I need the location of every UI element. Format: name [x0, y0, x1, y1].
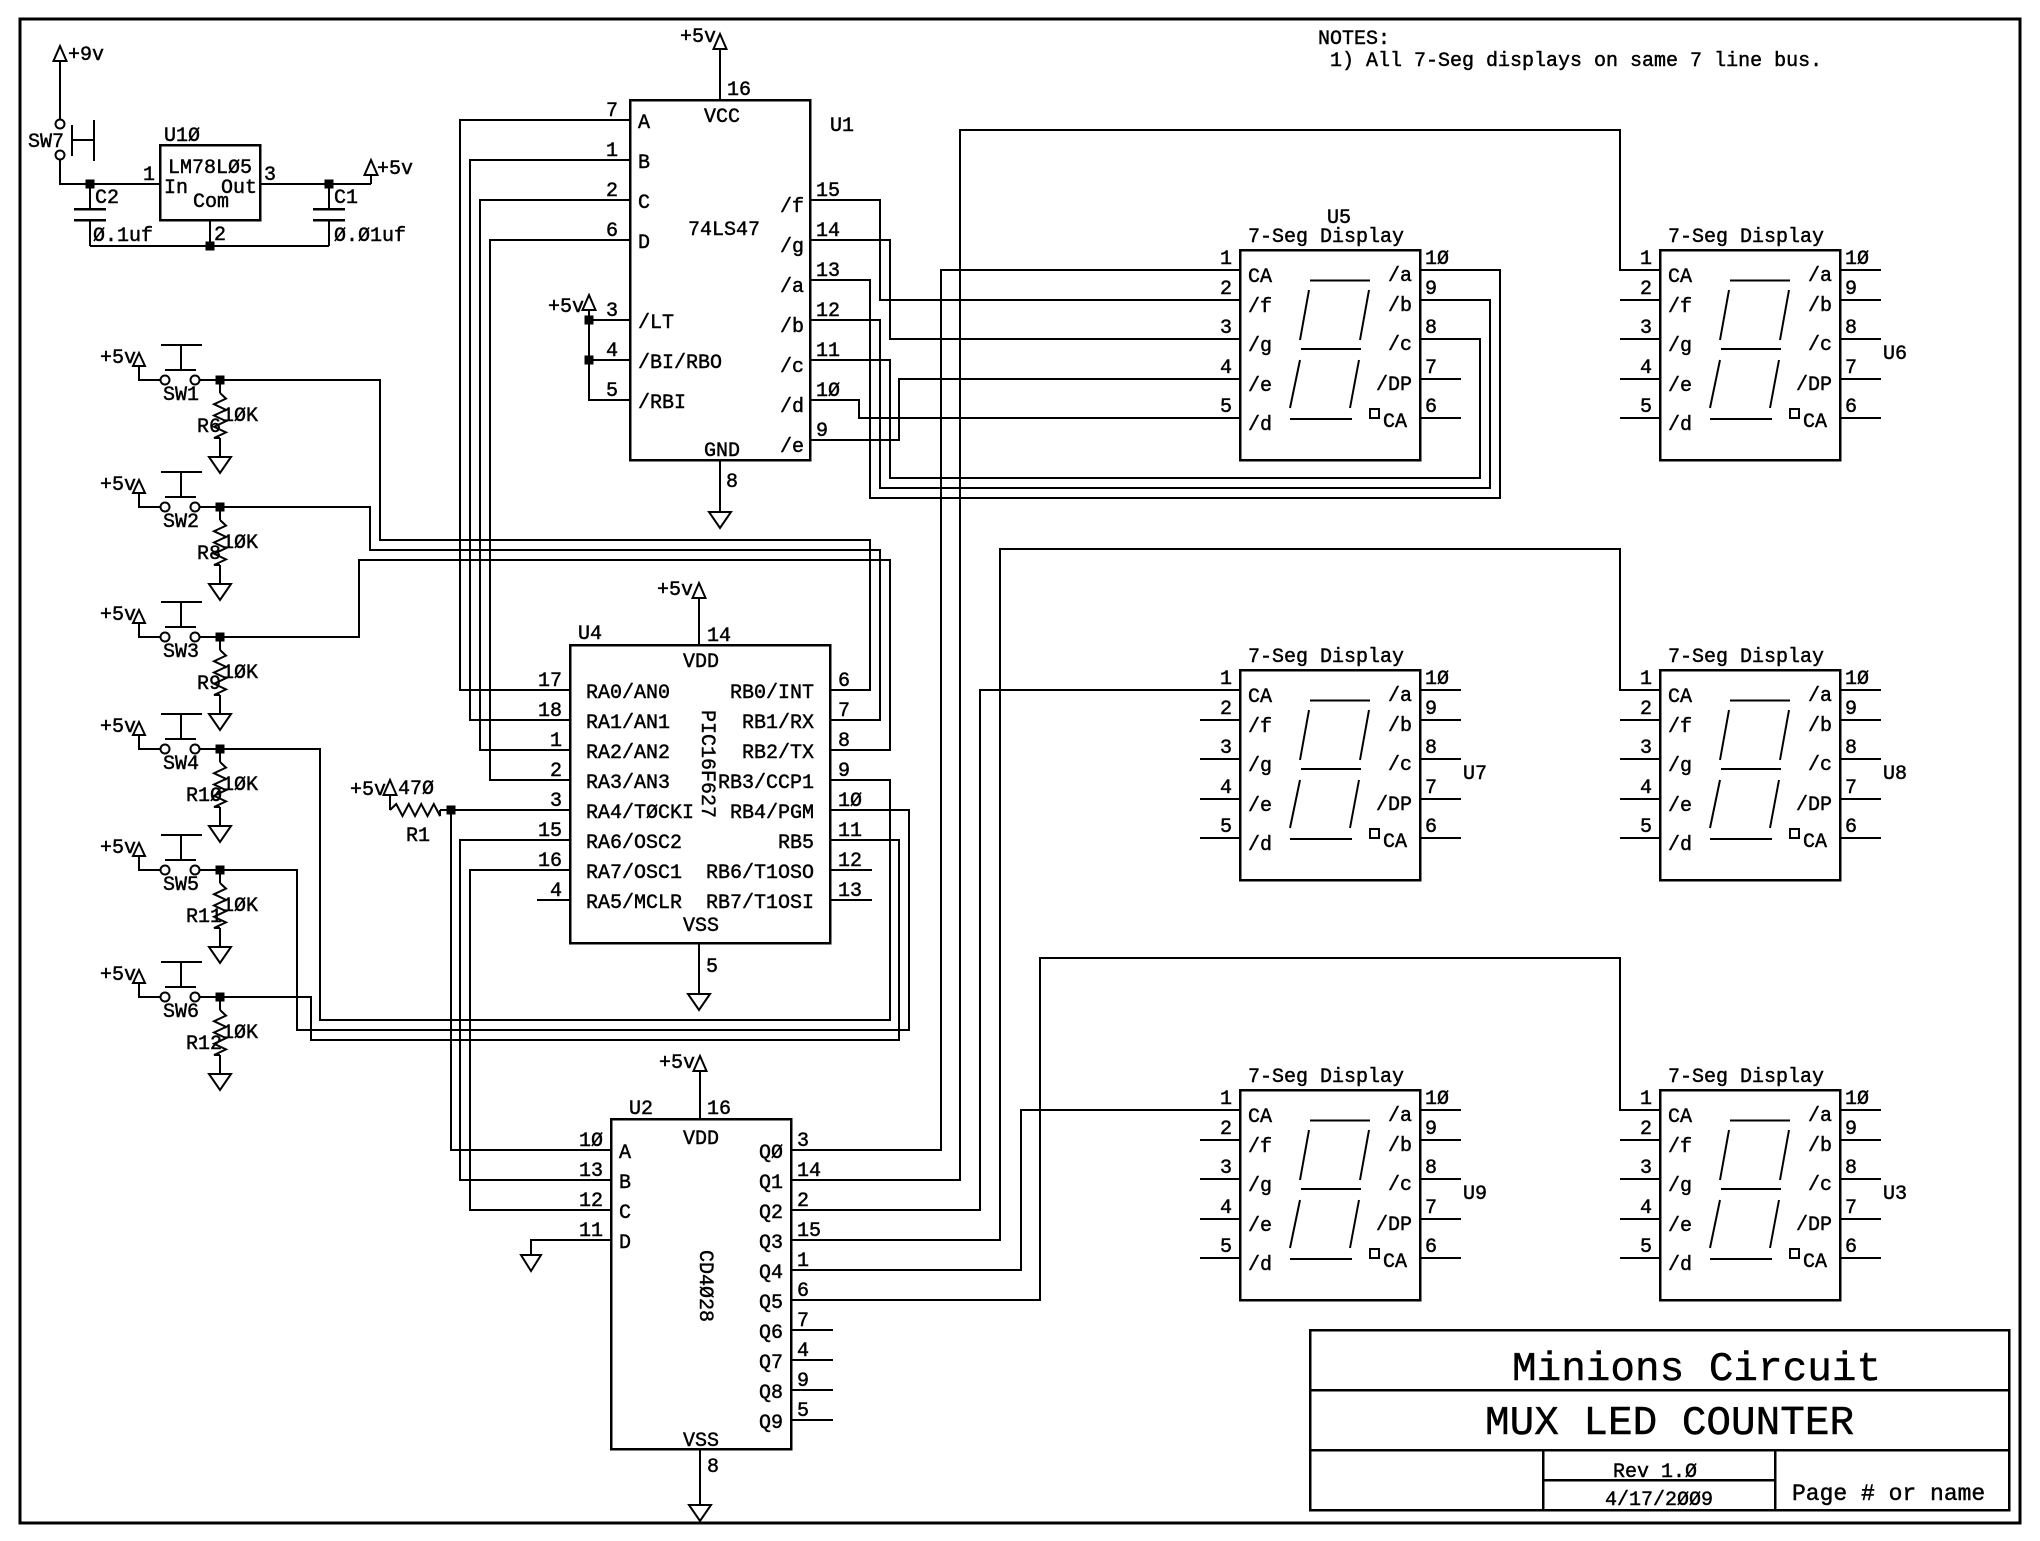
- svg-text:4: 4: [1220, 1197, 1232, 1220]
- svg-text:CA: CA: [1248, 1106, 1272, 1129]
- svg-text:/a: /a: [1808, 1105, 1832, 1128]
- svg-text:Com: Com: [193, 191, 229, 214]
- svg-text:2: 2: [214, 224, 226, 247]
- ground symbol U4: [688, 994, 710, 1010]
- svg-text:RB5: RB5: [778, 832, 814, 855]
- title block frame: [1310, 1330, 2009, 1510]
- svg-text:5: 5: [1220, 816, 1232, 839]
- svg-text:9: 9: [1845, 1118, 1857, 1141]
- svg-text:8: 8: [1425, 1157, 1437, 1180]
- ground symbol SW5: [209, 947, 231, 963]
- svg-text:Q4: Q4: [759, 1262, 783, 1285]
- svg-text:8: 8: [1845, 1157, 1857, 1180]
- svg-text:12: 12: [579, 1190, 603, 1213]
- svg-text:/e: /e: [1248, 1215, 1272, 1238]
- svg-text:CA: CA: [1803, 1251, 1827, 1274]
- ground symbol U2 D: [521, 1255, 541, 1271]
- svg-text:3: 3: [1220, 1157, 1232, 1180]
- display U7 7-Seg Display: [1240, 670, 1420, 880]
- node junction LT: [585, 316, 594, 325]
- svg-text:/d: /d: [780, 396, 804, 419]
- svg-text:R1: R1: [406, 825, 430, 848]
- svg-text:1Ø: 1Ø: [579, 1130, 603, 1153]
- resistor R8 10K: [219, 507, 221, 520]
- wire net /b U1.12 to U5.9: [810, 300, 1490, 488]
- svg-text:RA6/OSC2: RA6/OSC2: [586, 832, 682, 855]
- node ground bus junction: [206, 242, 215, 251]
- svg-text:RB7/T1OSI: RB7/T1OSI: [706, 892, 814, 915]
- svg-text:14: 14: [707, 625, 731, 648]
- wire net SW5 to RB4: [220, 810, 909, 1030]
- svg-text:7-Seg Display: 7-Seg Display: [1248, 646, 1404, 669]
- svg-text:/f: /f: [1668, 716, 1692, 739]
- svg-text:/BI/RBO: /BI/RBO: [638, 352, 722, 375]
- svg-text:3: 3: [1640, 317, 1652, 340]
- svg-text:Rev 1.Ø: Rev 1.Ø: [1613, 1461, 1697, 1484]
- node SW1 junction: [216, 376, 225, 385]
- wire +5v to /LT /BI/RBO /RBI: [589, 310, 630, 400]
- svg-text:/f: /f: [1668, 296, 1692, 319]
- svg-text:/g: /g: [1668, 1175, 1692, 1198]
- svg-text:R6: R6: [197, 416, 221, 439]
- svg-text:6: 6: [1425, 1236, 1437, 1259]
- svg-text:RA5/MCLR: RA5/MCLR: [586, 892, 682, 915]
- ground symbol SW1: [209, 457, 231, 473]
- svg-text:R8: R8: [197, 543, 221, 566]
- svg-text:3: 3: [1640, 1157, 1652, 1180]
- U2 Q9 stub wire: [791, 1419, 833, 1421]
- svg-text:Q8: Q8: [759, 1382, 783, 1405]
- svg-text:PIC16F627: PIC16F627: [695, 710, 718, 818]
- svg-text:+5v: +5v: [100, 604, 136, 627]
- svg-text:/b: /b: [1808, 295, 1832, 318]
- svg-text:5: 5: [706, 956, 718, 979]
- svg-text:4: 4: [1220, 357, 1232, 380]
- U3 digit segments: [1730, 1120, 1790, 1122]
- svg-text:/e: /e: [1248, 795, 1272, 818]
- ground symbol SW4: [209, 826, 231, 842]
- svg-text:U3: U3: [1883, 1183, 1907, 1206]
- wire net Q2 to U7 CA: [791, 690, 1240, 1210]
- svg-text:1Ø: 1Ø: [1425, 668, 1449, 691]
- wire net B U1.1 to RA1: [470, 160, 630, 720]
- svg-text:R1Ø: R1Ø: [186, 785, 222, 808]
- svg-text:+5v: +5v: [100, 474, 136, 497]
- wire net Q1 to U6 CA: [791, 130, 1660, 1180]
- svg-text:/e: /e: [1248, 375, 1272, 398]
- svg-text:13: 13: [579, 1160, 603, 1183]
- svg-text:R12: R12: [186, 1033, 222, 1056]
- svg-text:/e: /e: [1668, 1215, 1692, 1238]
- svg-text:/c: /c: [1388, 754, 1412, 777]
- svg-text:8: 8: [1845, 317, 1857, 340]
- U4 pin 13 stub wire: [830, 899, 872, 901]
- wire SW4 contact to node: [200, 748, 220, 750]
- svg-text:1Ø: 1Ø: [1425, 1088, 1449, 1111]
- wire net /d U1.10 to U5.5: [810, 400, 1240, 418]
- wire +5v to SW5: [139, 856, 160, 870]
- svg-text:8: 8: [1425, 737, 1437, 760]
- IC U2 CD4028: [611, 1119, 791, 1449]
- svg-text:7: 7: [1845, 777, 1857, 800]
- svg-text:1Ø: 1Ø: [1845, 248, 1869, 271]
- svg-text:CA: CA: [1803, 411, 1827, 434]
- svg-text:/a: /a: [1388, 685, 1412, 708]
- svg-text:7: 7: [1425, 777, 1437, 800]
- svg-text:+5v: +5v: [548, 296, 584, 319]
- svg-text:4: 4: [606, 340, 618, 363]
- switch SW7: [56, 120, 65, 129]
- svg-text:/f: /f: [1248, 1136, 1272, 1159]
- svg-text:2: 2: [1640, 278, 1652, 301]
- ground symbol SW2: [209, 584, 231, 600]
- svg-text:/b: /b: [1388, 1135, 1412, 1158]
- svg-text:74LS47: 74LS47: [688, 219, 760, 242]
- svg-text:RA3/AN3: RA3/AN3: [586, 772, 670, 795]
- svg-text:Ø.1uf: Ø.1uf: [93, 225, 153, 248]
- svg-text:Q2: Q2: [759, 1202, 783, 1225]
- svg-text:8: 8: [726, 471, 738, 494]
- switch SW6: [161, 993, 170, 1002]
- svg-text:/c: /c: [1808, 334, 1832, 357]
- svg-text:Ø.Ø1uf: Ø.Ø1uf: [334, 225, 406, 248]
- svg-text:2: 2: [1640, 1118, 1652, 1141]
- wire +5v to VDD pin 14: [698, 598, 700, 645]
- svg-text:R9: R9: [197, 673, 221, 696]
- svg-text:C: C: [619, 1202, 631, 1225]
- svg-text:/DP: /DP: [1796, 1214, 1832, 1237]
- svg-text:1: 1: [1640, 1088, 1652, 1111]
- svg-text:VSS: VSS: [683, 915, 719, 938]
- wire U10 Com pin2: [209, 220, 211, 246]
- svg-text:1: 1: [1220, 668, 1232, 691]
- svg-text:+5v: +5v: [377, 158, 413, 181]
- wire net /c U1.11 to U5.8: [810, 339, 1480, 478]
- wire SW3 contact to node: [200, 636, 220, 638]
- svg-text:/e: /e: [780, 436, 804, 459]
- node SW5 junction: [216, 866, 225, 875]
- U8 digit segments: [1730, 700, 1790, 702]
- svg-text:Q5: Q5: [759, 1292, 783, 1315]
- svg-text:9: 9: [1425, 1118, 1437, 1141]
- svg-text:1) All 7-Seg displays on same: 1) All 7-Seg displays on same 7 line bus…: [1330, 50, 1822, 73]
- svg-text:D: D: [619, 1232, 631, 1255]
- switch SW1: [161, 376, 170, 385]
- svg-text:SW5: SW5: [163, 874, 199, 897]
- svg-text:D: D: [638, 232, 650, 255]
- IC U1 74LS47: [630, 100, 810, 460]
- svg-text:NOTES:: NOTES:: [1318, 28, 1390, 51]
- svg-text:6: 6: [1845, 1236, 1857, 1259]
- svg-text:16: 16: [727, 79, 751, 102]
- wire net /g U1.14 to U5.3: [810, 240, 1240, 339]
- svg-text:Page # or name: Page # or name: [1792, 1481, 1985, 1507]
- wire net /f U1.15 to U5.2: [810, 200, 1240, 300]
- display U3 7-Seg Display: [1660, 1090, 1840, 1300]
- wire net Q4 to U9 CA: [791, 1110, 1240, 1270]
- svg-text:VDD: VDD: [683, 1128, 719, 1151]
- switch SW5: [161, 866, 170, 875]
- wire net C U1.2 to RA2: [480, 200, 630, 750]
- svg-text:/d: /d: [1248, 834, 1272, 857]
- node junction BI/RBO: [585, 356, 594, 365]
- node SW4 junction: [216, 745, 225, 754]
- ground symbol U2: [689, 1505, 711, 1521]
- svg-text:CA: CA: [1803, 831, 1827, 854]
- wire net Q0 to U5 CA: [791, 270, 1240, 1150]
- svg-text:/f: /f: [1248, 296, 1272, 319]
- wire U10 Out to +5v: [260, 183, 371, 185]
- wire +5v to U2 VDD pin 16: [699, 1071, 701, 1119]
- svg-text:RA7/OSC1: RA7/OSC1: [586, 862, 682, 885]
- svg-text:/DP: /DP: [1376, 374, 1412, 397]
- svg-text:5: 5: [606, 380, 618, 403]
- svg-text:2: 2: [1220, 278, 1232, 301]
- U2 Q8 stub wire: [791, 1389, 833, 1391]
- switch SW3: [161, 633, 170, 642]
- wire +5v to SW3: [139, 623, 160, 637]
- svg-text:VDD: VDD: [683, 651, 719, 674]
- svg-text:/a: /a: [1388, 265, 1412, 288]
- svg-text:RB0/INT: RB0/INT: [730, 682, 814, 705]
- wire SW2 contact to node: [200, 506, 220, 508]
- resistor R12 10K: [219, 997, 221, 1010]
- svg-text:9: 9: [1845, 698, 1857, 721]
- wire net SW3 to RB2: [220, 560, 890, 750]
- svg-text:/a: /a: [1808, 685, 1832, 708]
- svg-text:+5v: +5v: [100, 837, 136, 860]
- svg-text:6: 6: [1845, 396, 1857, 419]
- svg-text:7: 7: [1845, 357, 1857, 380]
- wire net Q3 to U8 CA: [791, 549, 1660, 1240]
- wire net SW6 to RB5: [220, 840, 899, 1040]
- svg-text:3: 3: [1220, 317, 1232, 340]
- svg-text:5: 5: [1640, 1236, 1652, 1259]
- svg-text:SW7: SW7: [28, 131, 64, 154]
- svg-text:+5v: +5v: [350, 779, 386, 802]
- svg-text:CA: CA: [1383, 831, 1407, 854]
- svg-text:1: 1: [1640, 668, 1652, 691]
- U7 digit segments: [1310, 700, 1370, 702]
- svg-text:CA: CA: [1383, 411, 1407, 434]
- svg-text:3: 3: [1220, 737, 1232, 760]
- svg-text:+5v: +5v: [100, 716, 136, 739]
- svg-text:1ØK: 1ØK: [222, 532, 258, 555]
- svg-text:/a: /a: [1388, 1105, 1412, 1128]
- svg-text:/RBI: /RBI: [638, 392, 686, 415]
- svg-text:+5v: +5v: [657, 579, 693, 602]
- svg-text:CA: CA: [1248, 266, 1272, 289]
- svg-text:+9v: +9v: [68, 44, 104, 67]
- ground symbol SW3: [209, 714, 231, 730]
- svg-text:RA4/TØCKI: RA4/TØCKI: [586, 802, 694, 825]
- svg-text:U2: U2: [629, 1098, 653, 1121]
- svg-text:U9: U9: [1463, 1183, 1487, 1206]
- regulator U10 LM78L05: [160, 145, 260, 220]
- svg-text:/a: /a: [780, 276, 804, 299]
- wire +5v to SW1: [139, 366, 160, 380]
- svg-text:CD4Ø28: CD4Ø28: [693, 1250, 716, 1322]
- wire +9v to SW7: [59, 61, 61, 119]
- U9 digit segments: [1310, 1120, 1370, 1122]
- svg-text:7-Seg Display: 7-Seg Display: [1668, 226, 1824, 249]
- node C2 junction: [86, 180, 95, 189]
- svg-text:/DP: /DP: [1796, 374, 1832, 397]
- svg-text:/f: /f: [1248, 716, 1272, 739]
- IC U4 PIC16F627: [570, 645, 830, 943]
- wire +5v to VCC pin 16: [719, 49, 721, 100]
- svg-text:C1: C1: [334, 187, 358, 210]
- svg-text:47Ø: 47Ø: [398, 778, 434, 801]
- svg-text:8: 8: [1845, 737, 1857, 760]
- power net +5v output: [370, 175, 372, 184]
- svg-text:1Ø: 1Ø: [1845, 668, 1869, 691]
- svg-text:/g: /g: [1248, 335, 1272, 358]
- display U6 7-Seg Display: [1660, 250, 1840, 460]
- svg-text:B: B: [619, 1172, 631, 1195]
- svg-text:CA: CA: [1668, 1106, 1692, 1129]
- svg-text:QØ: QØ: [759, 1142, 783, 1165]
- wire U2 D to ground: [531, 1240, 611, 1255]
- node C1 junction: [325, 180, 334, 189]
- svg-text:Minions Circuit: Minions Circuit: [1512, 1347, 1881, 1393]
- svg-text:5: 5: [1220, 396, 1232, 419]
- svg-text:GND: GND: [704, 440, 740, 463]
- svg-text:/c: /c: [780, 356, 804, 379]
- wire net Q5 to U3 CA: [791, 958, 1660, 1300]
- svg-text:6: 6: [1425, 396, 1437, 419]
- svg-text:Q1: Q1: [759, 1172, 783, 1195]
- svg-text:1: 1: [1220, 248, 1232, 271]
- resistor R11 10K: [219, 870, 221, 883]
- resistor R10 10K: [219, 749, 221, 762]
- wire net D U1.6 to RA3: [490, 240, 630, 780]
- U5 digit segments: [1310, 280, 1370, 282]
- svg-text:RB6/T1OSO: RB6/T1OSO: [706, 862, 814, 885]
- svg-text:6: 6: [1425, 816, 1437, 839]
- svg-text:3: 3: [606, 300, 618, 323]
- svg-text:16: 16: [707, 1098, 731, 1121]
- svg-text:9: 9: [1845, 278, 1857, 301]
- svg-text:4: 4: [1640, 1197, 1652, 1220]
- svg-text:SW2: SW2: [163, 511, 199, 534]
- svg-text:2: 2: [1220, 698, 1232, 721]
- svg-text:/DP: /DP: [1796, 794, 1832, 817]
- wire ground bus C2-Com-C1: [90, 245, 329, 247]
- svg-text:/c: /c: [1808, 1174, 1832, 1197]
- svg-text:U4: U4: [578, 623, 602, 646]
- svg-text:/g: /g: [1248, 755, 1272, 778]
- svg-text:3: 3: [1640, 737, 1652, 760]
- svg-text:SW6: SW6: [163, 1001, 199, 1024]
- node SW3 junction: [216, 633, 225, 642]
- svg-text:7-Seg Display: 7-Seg Display: [1668, 646, 1824, 669]
- svg-text:1ØK: 1ØK: [222, 405, 258, 428]
- node SW2 junction: [216, 503, 225, 512]
- svg-text:RB1/RX: RB1/RX: [742, 712, 814, 735]
- U4 pin 12 stub wire: [830, 869, 872, 871]
- svg-text:/a: /a: [1808, 265, 1832, 288]
- svg-text:/f: /f: [780, 196, 804, 219]
- svg-text:R11: R11: [186, 906, 222, 929]
- svg-text:Q6: Q6: [759, 1322, 783, 1345]
- wire net A U1.7 to RA0: [460, 120, 630, 690]
- svg-text:4: 4: [1640, 777, 1652, 800]
- svg-text:/DP: /DP: [1376, 794, 1412, 817]
- display U9 7-Seg Display: [1240, 1090, 1420, 1300]
- svg-text:8: 8: [1425, 317, 1437, 340]
- svg-text:A: A: [638, 112, 650, 135]
- svg-text:CA: CA: [1383, 1251, 1407, 1274]
- svg-text:/DP: /DP: [1376, 1214, 1412, 1237]
- svg-text:U5: U5: [1327, 207, 1351, 230]
- svg-text:U7: U7: [1463, 763, 1487, 786]
- svg-text:4: 4: [1640, 357, 1652, 380]
- wire net /e U1.9 to U5.4: [810, 379, 1240, 440]
- U2 Q6 stub wire: [791, 1329, 833, 1331]
- wire net SW4 to RB3: [220, 749, 890, 1020]
- svg-text:/e: /e: [1668, 795, 1692, 818]
- svg-text:U8: U8: [1883, 763, 1907, 786]
- svg-text:/c: /c: [1808, 754, 1832, 777]
- svg-text:7-Seg Display: 7-Seg Display: [1248, 1066, 1404, 1089]
- node SW6 junction: [216, 993, 225, 1002]
- svg-text:/b: /b: [1808, 1135, 1832, 1158]
- svg-text:+5v: +5v: [100, 964, 136, 987]
- svg-text:RB2/TX: RB2/TX: [742, 742, 814, 765]
- svg-text:RB4/PGM: RB4/PGM: [730, 802, 814, 825]
- svg-text:C: C: [638, 192, 650, 215]
- svg-text:2: 2: [1220, 1118, 1232, 1141]
- U2 Q7 stub wire: [791, 1359, 833, 1361]
- svg-text:CA: CA: [1248, 686, 1272, 709]
- svg-text:Q3: Q3: [759, 1232, 783, 1255]
- svg-text:/d: /d: [1248, 414, 1272, 437]
- svg-text:+5v: +5v: [100, 347, 136, 370]
- svg-text:7-Seg Display: 7-Seg Display: [1668, 1066, 1824, 1089]
- svg-text:7: 7: [1845, 1197, 1857, 1220]
- svg-text:/d: /d: [1668, 414, 1692, 437]
- svg-text:2: 2: [1640, 698, 1652, 721]
- svg-text:1: 1: [143, 164, 155, 187]
- svg-text:RA0/AN0: RA0/AN0: [586, 682, 670, 705]
- svg-text:/b: /b: [780, 316, 804, 339]
- svg-text:1ØK: 1ØK: [222, 774, 258, 797]
- svg-text:Q7: Q7: [759, 1352, 783, 1375]
- wire R1 to U2 A: [451, 810, 611, 1150]
- display U8 7-Seg Display: [1660, 670, 1840, 880]
- wire SW1 contact to node: [200, 379, 220, 381]
- ground symbol U1: [709, 512, 731, 528]
- svg-text:In: In: [164, 177, 188, 200]
- svg-text:/b: /b: [1388, 295, 1412, 318]
- svg-text:/d: /d: [1248, 1254, 1272, 1277]
- resistor R9 10K: [219, 637, 221, 650]
- wire RA7 to U2 C: [470, 870, 611, 1210]
- svg-text:Q9: Q9: [759, 1412, 783, 1435]
- svg-text:/b: /b: [1808, 715, 1832, 738]
- U4 pin 4 stub wire: [537, 899, 570, 901]
- svg-text:/d: /d: [1668, 834, 1692, 857]
- svg-text:RA1/AN1: RA1/AN1: [586, 712, 670, 735]
- wire +5v to SW4: [139, 735, 160, 749]
- svg-text:A: A: [619, 1142, 631, 1165]
- svg-text:VSS: VSS: [683, 1430, 719, 1453]
- wire +5v to SW2: [139, 493, 160, 507]
- capacitor C2: [89, 184, 91, 209]
- svg-text:5: 5: [1220, 1236, 1232, 1259]
- svg-text:/c: /c: [1388, 1174, 1412, 1197]
